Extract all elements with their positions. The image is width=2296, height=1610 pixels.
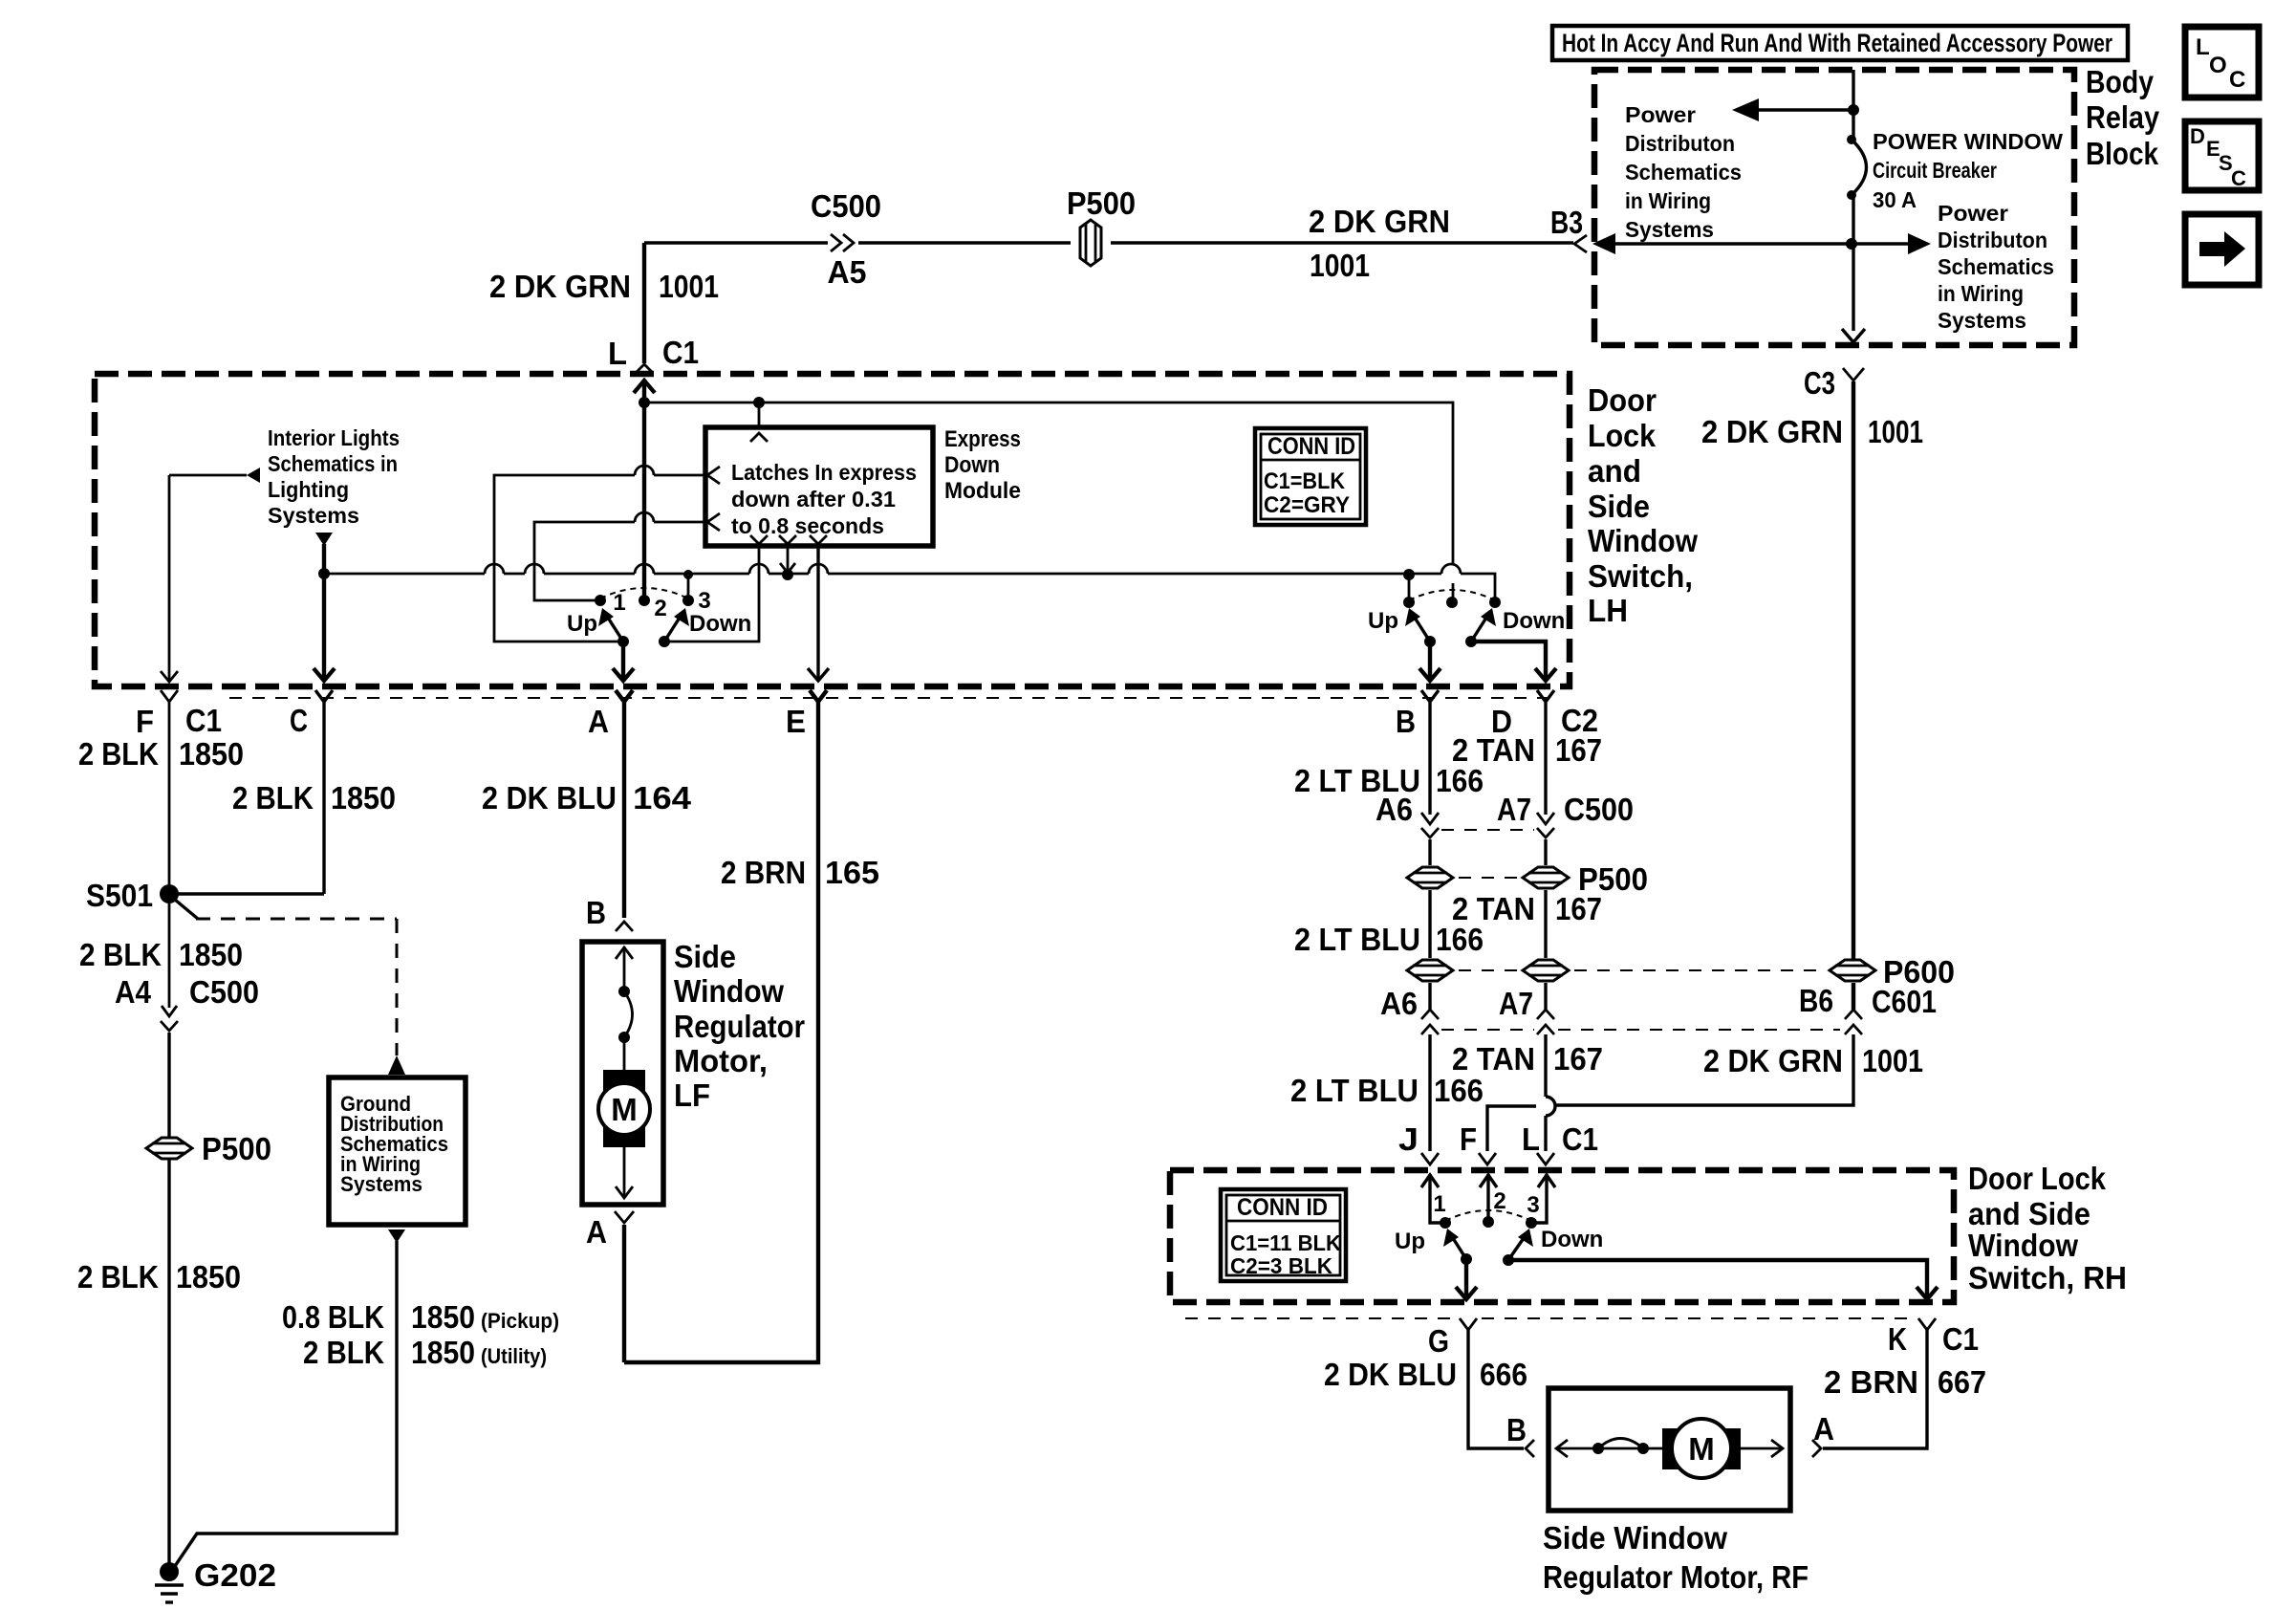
- svg-text:down after 0.31: down after 0.31: [731, 487, 896, 511]
- svg-text:2: 2: [654, 596, 666, 621]
- svg-text:CONN ID: CONN ID: [1237, 1194, 1328, 1221]
- svg-text:Schematics: Schematics: [1938, 254, 2054, 279]
- svg-text:1850: 1850: [411, 1335, 475, 1370]
- svg-text:667: 667: [1938, 1364, 1986, 1400]
- svg-text:Latches In express: Latches In express: [731, 460, 917, 485]
- svg-text:C2=3 BLK: C2=3 BLK: [1230, 1253, 1332, 1278]
- svg-text:C2=GRY: C2=GRY: [1264, 492, 1350, 518]
- svg-text:to 0.8 seconds: to 0.8 seconds: [731, 513, 884, 538]
- svg-text:Relay: Relay: [2086, 99, 2160, 135]
- svg-text:O: O: [2209, 53, 2227, 78]
- svg-text:1850: 1850: [411, 1299, 475, 1335]
- svg-text:A7: A7: [1499, 986, 1533, 1021]
- svg-text:C1=11 BLK: C1=11 BLK: [1230, 1230, 1341, 1255]
- svg-text:Regulator Motor, RF: Regulator Motor, RF: [1543, 1559, 1809, 1595]
- svg-text:Window: Window: [1968, 1228, 2078, 1263]
- svg-text:Lighting: Lighting: [268, 477, 349, 502]
- svg-text:2 DK GRN: 2 DK GRN: [489, 269, 631, 304]
- svg-text:1001: 1001: [1868, 414, 1923, 449]
- svg-text:1850: 1850: [179, 736, 244, 772]
- svg-text:B6: B6: [1799, 983, 1833, 1018]
- svg-text:3: 3: [698, 588, 710, 614]
- svg-text:G202: G202: [194, 1557, 276, 1593]
- svg-text:and: and: [1588, 453, 1641, 489]
- svg-text:C500: C500: [811, 188, 881, 224]
- svg-text:and Side: and Side: [1968, 1196, 2090, 1231]
- svg-text:Switch,: Switch,: [1588, 558, 1693, 594]
- svg-text:K: K: [1888, 1321, 1907, 1357]
- svg-text:2 DK GRN: 2 DK GRN: [1309, 204, 1450, 239]
- svg-text:Circuit Breaker: Circuit Breaker: [1873, 158, 1997, 183]
- svg-text:C1: C1: [1942, 1321, 1979, 1357]
- svg-text:C: C: [2229, 67, 2245, 93]
- svg-text:C3: C3: [1804, 365, 1835, 401]
- svg-text:L: L: [2196, 34, 2210, 60]
- svg-text:Down: Down: [944, 452, 1000, 478]
- svg-text:Schematics: Schematics: [1625, 160, 1742, 185]
- svg-text:E: E: [786, 704, 806, 739]
- svg-text:165: 165: [825, 855, 879, 890]
- svg-text:Regulator: Regulator: [674, 1009, 805, 1044]
- svg-text:2 LT BLU: 2 LT BLU: [1294, 922, 1420, 957]
- svg-text:B: B: [1506, 1412, 1527, 1447]
- svg-text:Down: Down: [1541, 1227, 1603, 1252]
- svg-text:C500: C500: [189, 974, 259, 1010]
- svg-text:2 BLK: 2 BLK: [77, 1259, 159, 1295]
- svg-text:666: 666: [1480, 1357, 1527, 1392]
- svg-text:A: A: [586, 1214, 607, 1250]
- svg-text:A5: A5: [828, 254, 867, 290]
- svg-text:A4: A4: [115, 974, 152, 1010]
- svg-text:164: 164: [633, 780, 692, 816]
- svg-text:M: M: [1688, 1431, 1715, 1467]
- svg-text:C: C: [2231, 166, 2246, 190]
- svg-text:Systems: Systems: [1625, 217, 1714, 242]
- svg-text:L: L: [1522, 1121, 1540, 1157]
- svg-text:Motor,: Motor,: [674, 1043, 768, 1078]
- svg-text:L: L: [608, 336, 627, 371]
- svg-text:D: D: [2190, 124, 2205, 148]
- svg-text:(Pickup): (Pickup): [481, 1309, 559, 1333]
- svg-text:Hot In Accy And Run And With R: Hot In Accy And Run And With Retained Ac…: [1562, 29, 2112, 57]
- svg-text:1001: 1001: [659, 269, 719, 304]
- svg-text:F: F: [136, 704, 154, 739]
- svg-text:Door Lock: Door Lock: [1968, 1161, 2107, 1196]
- svg-text:2 DK BLU: 2 DK BLU: [1324, 1357, 1457, 1392]
- svg-text:Switch, RH: Switch, RH: [1968, 1260, 2127, 1295]
- svg-text:2 BLK: 2 BLK: [78, 736, 159, 772]
- svg-text:2 DK BLU: 2 DK BLU: [482, 780, 617, 816]
- svg-text:2 TAN: 2 TAN: [1452, 1041, 1535, 1077]
- svg-text:Window: Window: [674, 973, 784, 1009]
- svg-text:Side: Side: [1588, 489, 1650, 524]
- svg-text:C601: C601: [1872, 984, 1937, 1019]
- svg-text:1: 1: [613, 590, 625, 616]
- svg-text:B: B: [1396, 704, 1416, 739]
- svg-text:2 BLK: 2 BLK: [232, 780, 314, 816]
- svg-text:Door: Door: [1588, 382, 1657, 418]
- svg-text:Express: Express: [944, 426, 1021, 452]
- svg-text:C1: C1: [1562, 1121, 1598, 1157]
- svg-text:Side: Side: [674, 939, 736, 974]
- svg-text:166: 166: [1434, 1073, 1484, 1108]
- svg-text:C: C: [290, 703, 308, 738]
- svg-text:(Utility): (Utility): [481, 1344, 547, 1368]
- svg-text:2 DK GRN: 2 DK GRN: [1703, 1043, 1843, 1078]
- svg-text:Up: Up: [1395, 1229, 1425, 1254]
- svg-text:LH: LH: [1588, 593, 1628, 628]
- svg-text:Schematics in: Schematics in: [268, 451, 398, 476]
- svg-text:C500: C500: [1564, 792, 1634, 827]
- svg-text:Distributon: Distributon: [1938, 228, 2047, 252]
- svg-text:Down: Down: [1503, 608, 1565, 634]
- svg-text:1001: 1001: [1310, 248, 1370, 283]
- svg-text:S501: S501: [86, 878, 153, 913]
- svg-text:167: 167: [1555, 891, 1602, 926]
- svg-text:166: 166: [1436, 922, 1484, 957]
- svg-text:1001: 1001: [1862, 1043, 1923, 1078]
- svg-text:Block: Block: [2086, 136, 2159, 171]
- svg-text:A6: A6: [1375, 792, 1413, 827]
- svg-text:C1: C1: [185, 703, 222, 738]
- svg-text:B3: B3: [1550, 205, 1583, 240]
- svg-text:Body: Body: [2086, 64, 2155, 99]
- svg-text:Power: Power: [1625, 102, 1696, 127]
- svg-text:POWER WINDOW: POWER WINDOW: [1873, 129, 2063, 154]
- svg-text:C1=BLK: C1=BLK: [1264, 468, 1346, 494]
- svg-text:A6: A6: [1380, 986, 1418, 1021]
- svg-text:Distributon: Distributon: [1625, 131, 1735, 156]
- svg-text:1850: 1850: [176, 1259, 241, 1295]
- svg-text:Up: Up: [567, 611, 597, 637]
- svg-text:Side Window: Side Window: [1543, 1520, 1727, 1556]
- svg-text:M: M: [611, 1092, 638, 1127]
- svg-text:LF: LF: [674, 1077, 710, 1113]
- svg-text:Systems: Systems: [1938, 308, 2026, 333]
- svg-text:2 BRN: 2 BRN: [721, 855, 806, 890]
- svg-text:Power: Power: [1938, 201, 2008, 226]
- svg-text:B: B: [586, 895, 606, 930]
- svg-text:2 BLK: 2 BLK: [303, 1335, 384, 1370]
- svg-text:Interior Lights: Interior Lights: [268, 425, 400, 450]
- svg-text:Lock: Lock: [1588, 418, 1657, 453]
- svg-text:in Wiring: in Wiring: [1938, 281, 2024, 306]
- svg-text:P500: P500: [1067, 185, 1136, 221]
- svg-text:Up: Up: [1368, 608, 1398, 634]
- svg-text:Down: Down: [689, 611, 751, 637]
- svg-text:Systems: Systems: [268, 503, 359, 528]
- svg-text:1: 1: [1433, 1191, 1445, 1217]
- svg-text:2 BLK: 2 BLK: [79, 937, 162, 972]
- svg-text:A7: A7: [1497, 792, 1531, 827]
- svg-text:C1: C1: [662, 335, 699, 370]
- svg-text:1850: 1850: [179, 937, 243, 972]
- svg-text:166: 166: [1436, 763, 1484, 798]
- svg-text:2 DK GRN: 2 DK GRN: [1701, 414, 1843, 449]
- svg-text:30 A: 30 A: [1873, 187, 1917, 212]
- svg-text:0.8 BLK: 0.8 BLK: [282, 1299, 384, 1335]
- svg-text:1850: 1850: [331, 780, 396, 816]
- svg-text:P500: P500: [202, 1131, 271, 1166]
- svg-text:2 LT BLU: 2 LT BLU: [1290, 1073, 1419, 1108]
- svg-text:F: F: [1460, 1121, 1477, 1157]
- svg-text:167: 167: [1553, 1041, 1603, 1077]
- svg-text:A: A: [588, 704, 609, 739]
- svg-text:CONN ID: CONN ID: [1267, 433, 1355, 460]
- svg-text:Module: Module: [944, 478, 1021, 504]
- svg-text:J: J: [1398, 1121, 1419, 1157]
- svg-text:Window: Window: [1588, 523, 1698, 558]
- svg-text:G: G: [1428, 1323, 1449, 1359]
- svg-text:in Wiring: in Wiring: [1625, 188, 1711, 213]
- svg-text:Systems: Systems: [340, 1172, 422, 1196]
- svg-text:3: 3: [1527, 1192, 1539, 1218]
- svg-text:A: A: [1813, 1411, 1834, 1447]
- svg-text:2 TAN: 2 TAN: [1452, 732, 1535, 768]
- svg-text:2 BRN: 2 BRN: [1824, 1364, 1918, 1400]
- svg-text:167: 167: [1555, 732, 1602, 768]
